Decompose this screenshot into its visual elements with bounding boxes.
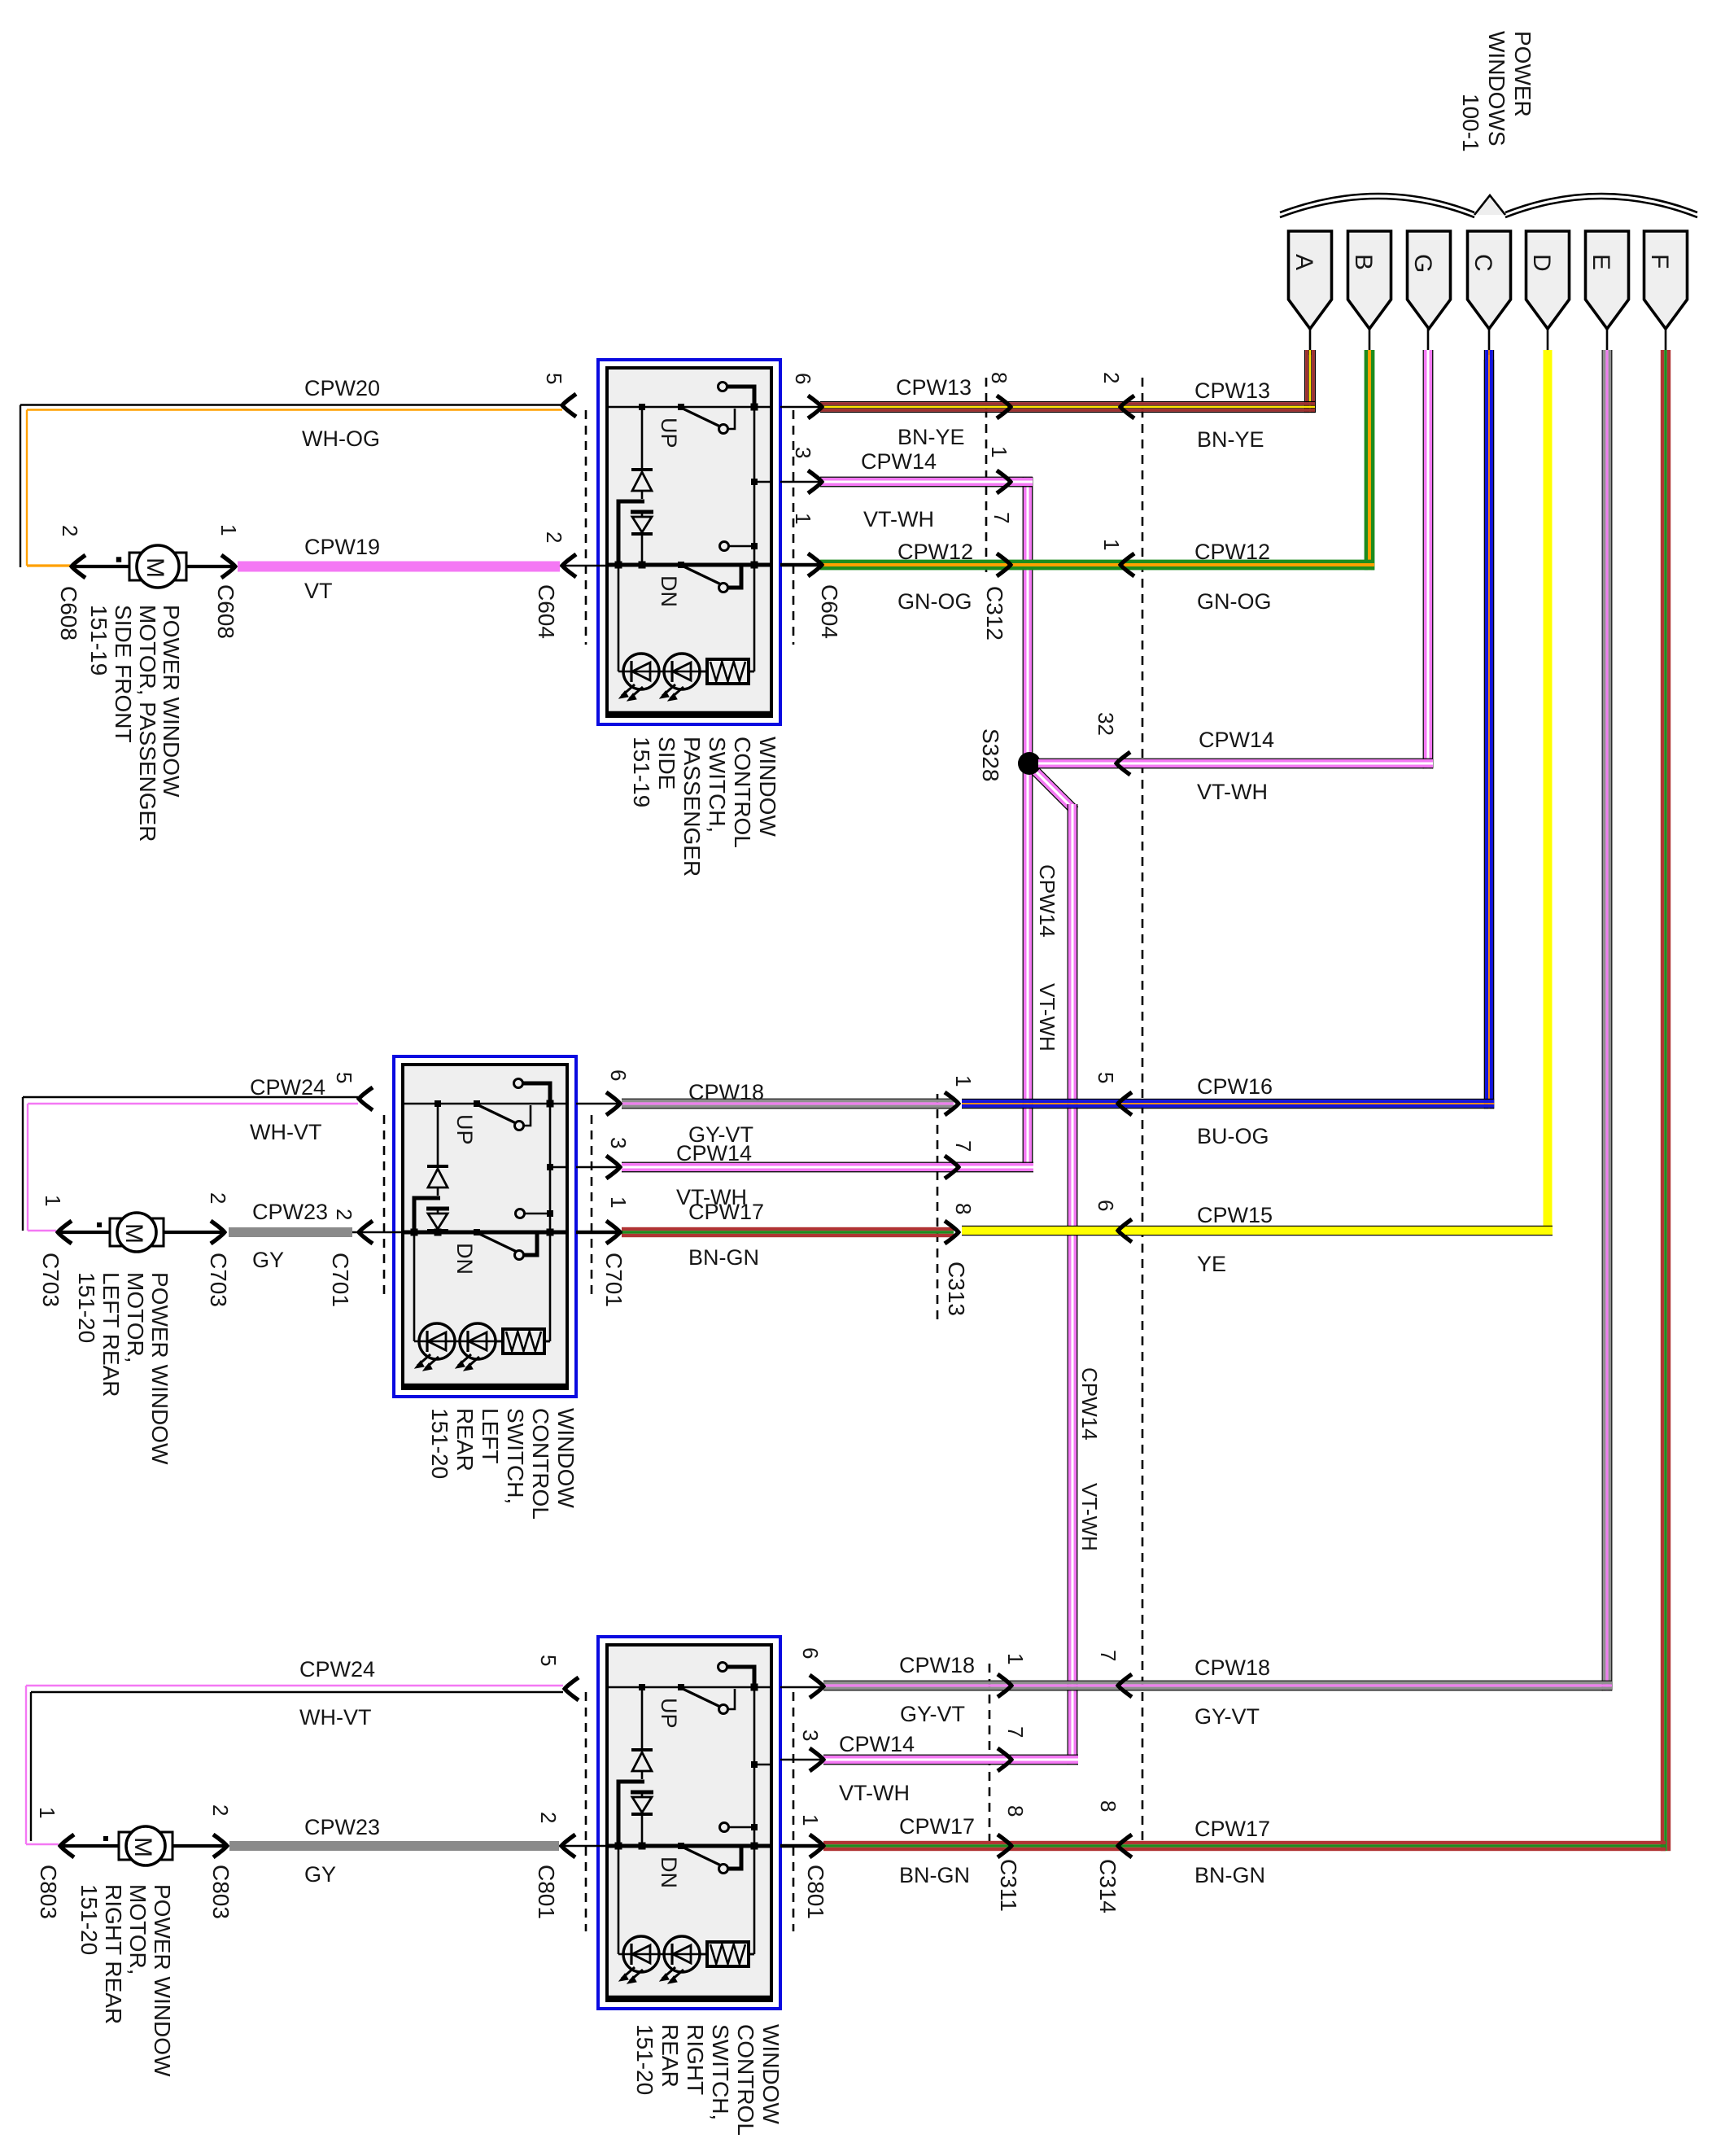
label CPW14 VT-WH bottom [839, 1732, 915, 1805]
svg-text:CPW24: CPW24 [299, 1657, 375, 1682]
connector C312 label [982, 586, 1007, 641]
svg-text:DN: DN [657, 1856, 681, 1888]
wire CPW16 BU-OG [962, 360, 1494, 1115]
wire CPW13 BN-YE left segment [780, 396, 1315, 418]
svg-text:BN-YE: BN-YE [897, 425, 965, 449]
pin 3 switch2 [606, 1137, 631, 1148]
node flag G [1408, 231, 1451, 329]
svg-text:2: 2 [208, 1804, 233, 1816]
svg-text:REAR: REAR [452, 1408, 478, 1472]
svg-text:6: 6 [606, 1069, 631, 1081]
pin 3 switch3 [798, 1730, 823, 1741]
motor M2 power window motor left rear [58, 1213, 225, 1252]
pin 6 switch2 [606, 1069, 631, 1081]
svg-text:CPW14: CPW14 [1077, 1367, 1102, 1441]
svg-text:WINDOW: WINDOW [755, 737, 780, 837]
label window control switch passenger side 151-19 [629, 737, 780, 877]
svg-text:DN: DN [452, 1243, 477, 1275]
svg-text:A: A [1291, 254, 1317, 270]
label CPW20 WH-OG [302, 376, 380, 451]
wire CPW14 VT-WH diagonal and long vertical to switch3 [1027, 763, 1078, 1765]
svg-text:MOTOR,: MOTOR, [123, 1272, 148, 1362]
pin 1 C313 gy-vt [951, 1075, 976, 1087]
label CPW18 GY-VT mid [688, 1080, 764, 1147]
connector C604 dashed (switch 1) [586, 410, 793, 645]
wire CPW18 GY-VT bottom [780, 1674, 1612, 1698]
wire CPW12 GN-OG [780, 553, 1374, 576]
wire CPW14 VT-WH vertical from pin3 switch1 down to C313 [1023, 477, 1033, 1167]
label CPW17 BN-GN bottom right [1194, 1817, 1270, 1887]
pin 7 C313 [951, 1140, 976, 1152]
svg-text:B: B [1350, 254, 1377, 270]
svg-text:2: 2 [332, 1209, 356, 1220]
label CPW16 BU-OG [1197, 1074, 1273, 1148]
connector C608 labels [56, 584, 238, 641]
svg-text:7: 7 [951, 1140, 976, 1152]
label CPW17 BN-GN mid [688, 1200, 764, 1270]
svg-text:CPW18: CPW18 [1194, 1655, 1270, 1680]
svg-text:CPW17: CPW17 [688, 1200, 764, 1224]
svg-text:CPW12: CPW12 [1194, 540, 1270, 564]
wire feed from flag A [1304, 329, 1316, 413]
svg-text:CPW14: CPW14 [676, 1141, 752, 1165]
label CPW24 WH-VT mid [250, 1075, 325, 1144]
label CPW23 GY mid [252, 1200, 328, 1272]
svg-text:G: G [1409, 254, 1436, 273]
svg-text:5: 5 [1094, 1072, 1118, 1083]
label CPW14 VT-WH mid [676, 1141, 752, 1209]
svg-text:3: 3 [791, 447, 815, 458]
pin 8 C311 [1003, 1805, 1028, 1817]
wire CPW14 VT-WH bottom (pin3 switch3) [780, 1748, 1078, 1771]
svg-text:151-19: 151-19 [86, 605, 111, 676]
pin 1 switch2 right [606, 1196, 631, 1208]
svg-text:WH-OG: WH-OG [302, 426, 380, 451]
motor M3 power window motor right rear [60, 1826, 227, 1865]
pin 2 switch2 left [332, 1209, 356, 1220]
svg-text:S328: S328 [978, 728, 1003, 781]
svg-text:VT-WH: VT-WH [1197, 780, 1268, 804]
svg-text:LEFT REAR: LEFT REAR [98, 1272, 124, 1397]
wire feed from flag E [1602, 329, 1613, 1690]
connector C701 dashed (switch 2) [384, 1115, 592, 1297]
svg-text:GY: GY [252, 1248, 284, 1272]
svg-text:CPW14: CPW14 [1199, 728, 1274, 752]
svg-text:3: 3 [606, 1137, 631, 1148]
svg-text:8: 8 [951, 1203, 976, 1214]
svg-text:POWER WINDOW: POWER WINDOW [159, 605, 184, 798]
label CPW17 BN-GN bottom left [899, 1814, 975, 1887]
pin 7 C314 gyvt [1096, 1650, 1120, 1661]
svg-text:CPW20: CPW20 [304, 376, 380, 400]
svg-text:C604: C604 [534, 584, 559, 639]
label CPW13 BN-YE right [1194, 378, 1270, 452]
wire CPW24 WH-VT (right rear) [26, 1677, 579, 1844]
label CPW14 VT-WH pin3 [861, 449, 937, 531]
connector C312 dashed [985, 378, 988, 578]
svg-text:POWER: POWER [1510, 31, 1535, 117]
svg-text:5: 5 [332, 1072, 356, 1083]
svg-text:M: M [120, 1223, 147, 1244]
svg-text:1: 1 [987, 446, 1011, 457]
wire feed from flag C [1484, 329, 1494, 1109]
connector C314 dashed [1142, 378, 1144, 1844]
svg-text:2: 2 [58, 525, 82, 536]
node flag F [1644, 231, 1688, 329]
svg-text:7: 7 [1003, 1726, 1028, 1738]
connector C311 dashed [989, 1664, 991, 1850]
label CPW14 VT-WH splice [1197, 728, 1274, 804]
svg-text:PASSENGER: PASSENGER [679, 737, 705, 877]
svg-text:GN-OG: GN-OG [897, 589, 972, 614]
svg-text:D: D [1528, 254, 1555, 272]
label CPW18 GY-VT bottom right [1194, 1655, 1270, 1729]
pin 5 switch1 [542, 373, 566, 384]
splice S328 [1018, 752, 1041, 775]
svg-text:WINDOWS: WINDOWS [1484, 31, 1509, 147]
svg-text:DN: DN [657, 575, 681, 607]
connector C604 labels [534, 584, 842, 639]
svg-text:RIGHT: RIGHT [683, 2024, 708, 2095]
wire feed from flag D [1544, 329, 1553, 1235]
svg-text:GY: GY [304, 1862, 336, 1887]
pin 3 switch1 [791, 447, 815, 458]
svg-text:C801: C801 [534, 1865, 559, 1919]
switch box U1 window control switch passenger side [598, 360, 780, 724]
svg-text:100-1: 100-1 [1458, 94, 1483, 152]
connector C703 labels [38, 1253, 231, 1307]
connector C701 labels [328, 1253, 627, 1307]
wire CPW19 VT [238, 554, 607, 577]
svg-text:M: M [142, 558, 168, 578]
svg-text:C703: C703 [206, 1253, 231, 1307]
svg-text:1: 1 [606, 1196, 631, 1208]
svg-text:UP: UP [657, 418, 681, 448]
svg-text:7: 7 [989, 512, 1014, 523]
wire feed from flag G [1423, 329, 1434, 768]
svg-text:CPW23: CPW23 [304, 1815, 380, 1839]
svg-text:WH-VT: WH-VT [299, 1705, 371, 1730]
node flag A [1289, 231, 1332, 329]
label CPW23 GY bottom [304, 1815, 380, 1887]
pin 7 C311 [1003, 1726, 1028, 1738]
motor M1 power window motor passenger side front [70, 545, 235, 588]
pin 1 C312 [987, 446, 1011, 457]
svg-text:WINDOW: WINDOW [553, 1408, 579, 1508]
svg-text:POWER WINDOW: POWER WINDOW [150, 1884, 175, 2077]
svg-text:CPW24: CPW24 [250, 1075, 325, 1100]
wire CPW14 VT-WH splice branch to flag G [1038, 752, 1433, 775]
svg-text:5: 5 [536, 1655, 561, 1666]
svg-text:SWITCH,: SWITCH, [708, 2024, 733, 2120]
svg-text:LEFT: LEFT [478, 1408, 503, 1463]
svg-text:151-19: 151-19 [629, 737, 654, 807]
svg-text:CPW17: CPW17 [899, 1814, 975, 1839]
label CPW14 VT-WH vertical lower [1077, 1367, 1102, 1551]
svg-text:SIDE: SIDE [654, 737, 679, 789]
connector C313 dashed [937, 1094, 939, 1324]
svg-text:CPW23: CPW23 [252, 1200, 328, 1224]
svg-text:YE: YE [1197, 1252, 1226, 1276]
svg-text:8: 8 [987, 372, 1011, 383]
svg-text:C: C [1470, 254, 1496, 272]
pin 2 switch3 left [536, 1812, 561, 1823]
svg-text:GY-VT: GY-VT [900, 1702, 965, 1726]
svg-text:1: 1 [1003, 1653, 1028, 1664]
svg-text:C803: C803 [208, 1865, 234, 1919]
svg-text:C313: C313 [944, 1262, 969, 1316]
label CPW14 VT-WH vertical upper [1035, 864, 1059, 1052]
label CPW13 BN-YE left [896, 375, 972, 449]
pin 8 C313 [951, 1203, 976, 1214]
svg-text:6: 6 [1094, 1200, 1118, 1211]
svg-text:5: 5 [542, 373, 566, 384]
svg-text:8: 8 [1003, 1805, 1028, 1817]
svg-text:MOTOR,: MOTOR, [125, 1884, 151, 1975]
pin 1 motor3 [35, 1807, 59, 1818]
svg-text:C703: C703 [38, 1253, 63, 1307]
switch box U3 window control switch right rear [598, 1637, 780, 2009]
svg-text:RIGHT REAR: RIGHT REAR [101, 1884, 126, 2024]
pin 5 switch2 [332, 1072, 356, 1083]
svg-text:CPW16: CPW16 [1197, 1074, 1273, 1099]
wire CPW17 BN-GN mid [576, 1221, 959, 1244]
svg-text:CPW14: CPW14 [861, 449, 937, 474]
pin 8 C314 bngn [1096, 1800, 1120, 1812]
svg-text:UP: UP [452, 1114, 477, 1145]
svg-text:GY-VT: GY-VT [1194, 1704, 1260, 1729]
wire CPW23 GY mid [229, 1221, 403, 1244]
label CPW24 WH-VT bottom [299, 1657, 375, 1730]
svg-text:3: 3 [798, 1730, 823, 1741]
brace over connector flags [1280, 194, 1697, 217]
svg-text:CPW18: CPW18 [899, 1653, 975, 1677]
svg-text:CPW13: CPW13 [896, 375, 972, 400]
svg-text:GN-OG: GN-OG [1197, 589, 1272, 614]
svg-text:1: 1 [951, 1075, 976, 1087]
svg-text:VT: VT [304, 579, 333, 603]
svg-text:BN-GN: BN-GN [899, 1863, 970, 1887]
svg-text:SWITCH,: SWITCH, [705, 737, 730, 833]
pin 1 switch1 right [791, 513, 815, 524]
label power window motor left rear 151-20 [74, 1272, 173, 1465]
svg-text:CPW19: CPW19 [304, 535, 380, 559]
label power window motor right rear 151-20 [76, 1884, 175, 2077]
connector C801 labels [534, 1865, 828, 1919]
svg-text:1: 1 [1099, 539, 1124, 550]
pin 1 C314 gn-og [1099, 539, 1124, 550]
svg-text:1: 1 [791, 513, 815, 524]
svg-text:BN-GN: BN-GN [1194, 1863, 1265, 1887]
label CPW19 VT [304, 535, 380, 603]
connector C314 label [1095, 1859, 1120, 1913]
pin 2 motor1 [58, 525, 82, 536]
svg-text:MOTOR, PASSENGER: MOTOR, PASSENGER [135, 605, 160, 842]
svg-text:6: 6 [798, 1647, 823, 1659]
svg-text:CPW17: CPW17 [1194, 1817, 1270, 1841]
pin 1 motor1 [216, 524, 241, 536]
wire CPW18 GY-VT mid [576, 1092, 959, 1115]
svg-text:UP: UP [657, 1698, 681, 1729]
pin 6 switch1 [791, 373, 815, 384]
svg-text:CPW18: CPW18 [688, 1080, 764, 1104]
svg-text:1: 1 [798, 1814, 823, 1826]
node flag C [1468, 231, 1511, 329]
svg-text:WH-VT: WH-VT [250, 1120, 321, 1144]
svg-text:E: E [1588, 254, 1614, 270]
svg-text:2: 2 [1099, 372, 1124, 383]
svg-text:CPW14: CPW14 [1035, 864, 1059, 938]
svg-text:WINDOW: WINDOW [758, 2024, 784, 2124]
svg-text:CPW14: CPW14 [839, 1732, 915, 1756]
svg-text:C701: C701 [328, 1253, 353, 1307]
wire CPW14 VT-WH from pin3 switch1 [780, 470, 1033, 493]
pin 5 C314 bu-og [1094, 1072, 1118, 1083]
pin 5 switch3 [536, 1655, 561, 1666]
svg-text:7: 7 [1096, 1650, 1120, 1661]
label power window motor passenger side front 151-19 [86, 605, 184, 842]
wire CPW24 WH-VT (left rear) [23, 1087, 373, 1231]
svg-text:2: 2 [542, 531, 566, 543]
pin 1 switch3 right [798, 1814, 823, 1826]
svg-text:C604: C604 [817, 584, 842, 639]
connector C801 dashed (switch 3) [586, 1692, 793, 1931]
svg-text:C701: C701 [601, 1253, 627, 1307]
svg-text:SWITCH,: SWITCH, [503, 1408, 528, 1504]
label CPW18 GY-VT bottom left [899, 1653, 975, 1726]
svg-text:M: M [129, 1837, 156, 1857]
wire CPW15 YE [962, 1219, 1553, 1242]
svg-text:1: 1 [35, 1807, 59, 1818]
label S328 [978, 728, 1003, 781]
wire CPW23 GY bottom [229, 1835, 607, 1857]
svg-text:VT-WH: VT-WH [863, 507, 934, 531]
node flag B [1348, 231, 1391, 329]
svg-text:REAR: REAR [657, 2024, 683, 2088]
label CPW12 GN-OG right [1194, 540, 1272, 614]
connector C313 label [944, 1262, 969, 1316]
pin 2 switch1 left [542, 531, 566, 543]
svg-text:VT-WH: VT-WH [839, 1781, 910, 1805]
wire feed from flag F [1661, 329, 1671, 1851]
wire feed from flag B [1365, 329, 1375, 570]
svg-text:CONTROL: CONTROL [733, 2024, 758, 2136]
svg-text:1: 1 [216, 524, 241, 536]
label CPW15 YE [1197, 1203, 1273, 1276]
pin 1 motor2 [41, 1195, 65, 1206]
svg-text:2: 2 [206, 1192, 230, 1204]
svg-text:C312: C312 [982, 586, 1007, 641]
svg-text:CPW15: CPW15 [1197, 1203, 1273, 1227]
svg-text:151-20: 151-20 [427, 1408, 452, 1479]
svg-text:CONTROL: CONTROL [730, 737, 755, 848]
label window control switch right rear 151-20 [632, 2024, 784, 2136]
svg-text:2: 2 [536, 1812, 561, 1823]
svg-text:SIDE FRONT: SIDE FRONT [111, 605, 136, 743]
svg-text:CPW12: CPW12 [897, 540, 973, 564]
wire CPW20 WH-OG [20, 394, 576, 567]
title POWER WINDOWS 100-1 [1458, 31, 1535, 152]
label CPW12 GN-OG left [897, 540, 973, 614]
wire CPW14 VT-WH mid (pin3 switch2) [576, 1156, 1033, 1179]
pin 2 C314 [1099, 372, 1124, 383]
switch box U2 window control switch left rear [394, 1056, 576, 1397]
svg-text:1: 1 [41, 1195, 65, 1206]
svg-text:BU-OG: BU-OG [1197, 1124, 1269, 1148]
connector C311 label [996, 1859, 1021, 1912]
svg-text:C314: C314 [1095, 1859, 1120, 1913]
svg-text:C608: C608 [213, 584, 238, 639]
pin 6 C314 ye [1094, 1200, 1118, 1211]
svg-text:C608: C608 [56, 586, 81, 641]
svg-text:C803: C803 [36, 1865, 61, 1919]
svg-text:8: 8 [1096, 1800, 1120, 1812]
node flag E [1586, 231, 1629, 329]
pin 1 C311 [1003, 1653, 1028, 1664]
label window control switch left rear 151-20 [427, 1408, 579, 1520]
svg-text:CPW13: CPW13 [1194, 378, 1270, 403]
svg-text:32: 32 [1094, 712, 1118, 736]
svg-text:C801: C801 [803, 1865, 828, 1919]
pin 6 switch3 [798, 1647, 823, 1659]
svg-text:F: F [1646, 254, 1673, 269]
svg-text:VT-WH: VT-WH [1035, 983, 1059, 1052]
svg-text:BN-YE: BN-YE [1197, 427, 1264, 452]
svg-text:6: 6 [791, 373, 815, 384]
svg-text:151-20: 151-20 [76, 1884, 102, 1955]
wire CPW17 BN-GN bottom [780, 1835, 1666, 1857]
pin 2 motor2 [206, 1192, 230, 1204]
pin 32 S328 [1094, 712, 1118, 736]
node flag D [1526, 231, 1570, 329]
svg-text:151-20: 151-20 [74, 1272, 99, 1343]
pin 8 C312 [987, 372, 1011, 383]
pin 7 C312 [989, 512, 1014, 523]
svg-text:C311: C311 [996, 1859, 1021, 1912]
connector C803 labels [36, 1865, 234, 1919]
pin 2 motor3 [208, 1804, 233, 1816]
svg-text:POWER WINDOW: POWER WINDOW [147, 1272, 173, 1465]
svg-text:CONTROL: CONTROL [528, 1408, 553, 1520]
svg-text:VT-WH: VT-WH [1077, 1483, 1102, 1551]
svg-text:151-20: 151-20 [632, 2024, 657, 2095]
svg-text:BN-GN: BN-GN [688, 1245, 759, 1270]
